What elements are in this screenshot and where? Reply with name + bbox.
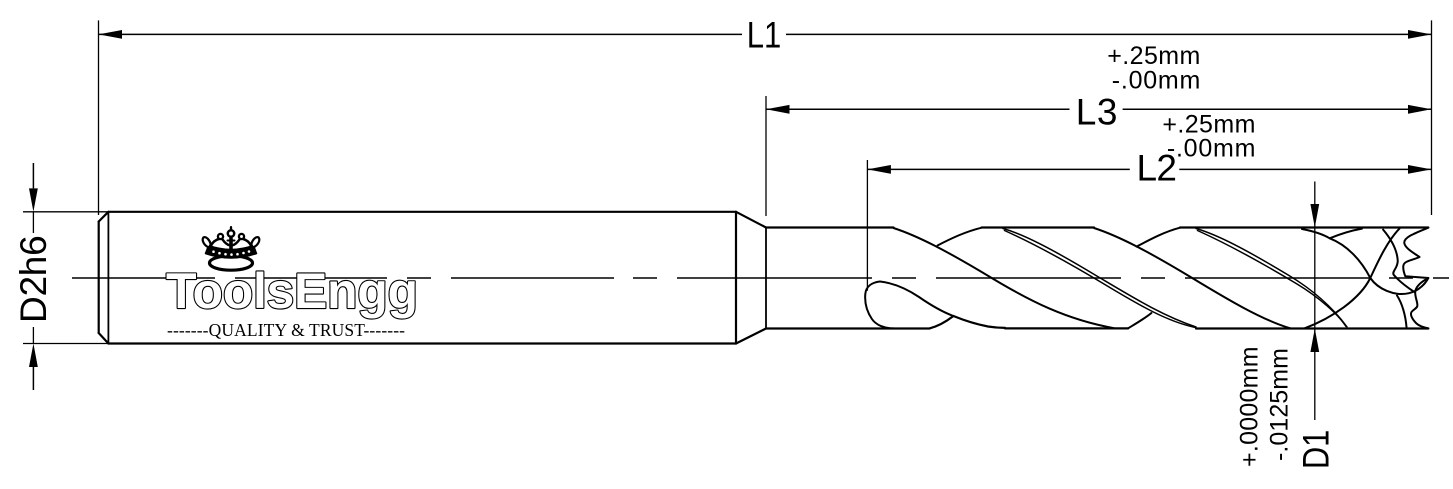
- flute top edge segment 3: [1180, 226, 1428, 228]
- shank right face: [735, 212, 737, 344]
- flute top edge segment 1: [766, 226, 894, 228]
- ascender A3: [1137, 228, 1180, 247]
- ascender A2: [1128, 313, 1151, 328]
- flute bottom edge cusp ramp up: [930, 316, 954, 328]
- svg-text:-.00mm: -.00mm: [1112, 66, 1201, 94]
- centerline (dash-dot axis): [72, 277, 1449, 279]
- shank bottom edge: [108, 342, 736, 344]
- flute bottom edge cusp ramp down: [953, 316, 1005, 328]
- crown bottom rim: [210, 256, 253, 270]
- svg-text:+.0000mm: +.0000mm: [1236, 346, 1264, 467]
- crown center orb: [228, 230, 234, 236]
- neck vertical: [765, 228, 767, 329]
- teardrop runout left arc: [865, 282, 893, 329]
- svg-text:-------QUALITY & TRUST-------: -------QUALITY & TRUST-------: [167, 320, 405, 340]
- crown right orb: [239, 234, 244, 239]
- dimension line L1: [99, 33, 1432, 35]
- ascender A1: [938, 228, 982, 246]
- extension line shank bottom: [23, 343, 108, 345]
- flute bottom edge segment 1: [766, 327, 930, 329]
- dimension D2h6 arrow bottom: [32, 367, 34, 390]
- extension line L3: [765, 96, 767, 216]
- sliver 1 lower line: [1005, 231, 1196, 328]
- arrow L2 left: [867, 165, 891, 174]
- flute body edges: [766, 228, 1428, 329]
- crown left arch: [211, 239, 220, 247]
- crown center stem: [229, 239, 233, 249]
- svg-text:L3: L3: [1076, 92, 1118, 133]
- crown left horn: [203, 237, 211, 247]
- crown center orb tip: [230, 227, 232, 229]
- svg-text:ToolsEngg: ToolsEngg: [166, 263, 418, 319]
- svg-text:L1: L1: [747, 15, 782, 56]
- shank left chamfer top: [99, 212, 109, 222]
- flute diagonal D1: [894, 228, 1115, 328]
- shank chamfer edge vertical: [107, 212, 109, 344]
- shank left face: [98, 222, 100, 334]
- sliver 1 upper line: [1003, 229, 1196, 328]
- dimension D1 leader line: [1314, 182, 1316, 421]
- extension line L1 left: [98, 20, 100, 215]
- dimension D2h6 arrow top: [32, 163, 34, 188]
- extension line right (L1/L3/L2): [1431, 20, 1433, 215]
- crown right arch: [243, 239, 252, 247]
- extension line L2: [866, 160, 868, 291]
- arrow L3 right: [1408, 105, 1432, 114]
- extension line shank top: [23, 211, 108, 213]
- dimension line L3: [766, 108, 1432, 110]
- flute bottom edge segment 3: [1196, 327, 1428, 329]
- svg-text:-.0125mm: -.0125mm: [1266, 348, 1294, 461]
- tool end break line: [1403, 228, 1428, 329]
- flute bottom edge segment 2: [1005, 327, 1128, 329]
- crown inner arch left: [223, 240, 230, 246]
- shank left chamfer bottom: [99, 333, 109, 344]
- flute top edge segment 2: [982, 226, 1094, 228]
- sliver 2 upper line: [1196, 229, 1347, 327]
- arrow L3 left: [766, 105, 790, 114]
- arrow L1 left: [99, 30, 123, 39]
- arrow L1 right: [1408, 30, 1432, 39]
- dimension line L2: [867, 168, 1431, 170]
- end small drop curve: [1397, 296, 1407, 328]
- shank top edge: [108, 211, 736, 213]
- end shallow ascender: [1330, 229, 1362, 239]
- svg-text:D2h6: D2h6: [13, 235, 54, 323]
- end bowl curve: [1370, 278, 1428, 294]
- sliver 2 lower line: [1198, 231, 1347, 327]
- logo crown: [203, 227, 260, 270]
- crown beaded band: [206, 246, 257, 259]
- end ascender S-curve: [1305, 229, 1400, 329]
- arrow L2 right: [1408, 165, 1432, 174]
- taper bottom: [736, 329, 766, 344]
- teardrop runout upper boundary: [880, 282, 953, 317]
- flute diagonal D3: [1302, 229, 1370, 278]
- shank outline: [99, 212, 766, 344]
- crown left orb: [218, 234, 223, 239]
- sliver margin lines: [1003, 229, 1347, 328]
- crown inner arch right: [233, 240, 240, 246]
- crown right horn: [251, 237, 259, 247]
- svg-text:-.00mm: -.00mm: [1167, 135, 1256, 163]
- arrow D1 top: [1310, 204, 1319, 228]
- flute diagonal D2: [1094, 228, 1290, 328]
- end wiggle curve: [1383, 230, 1414, 293]
- taper top: [736, 212, 766, 228]
- svg-text:D1: D1: [1295, 430, 1337, 469]
- arrow D1 bottom: [1310, 329, 1319, 353]
- flute helix curves: [865, 228, 1428, 329]
